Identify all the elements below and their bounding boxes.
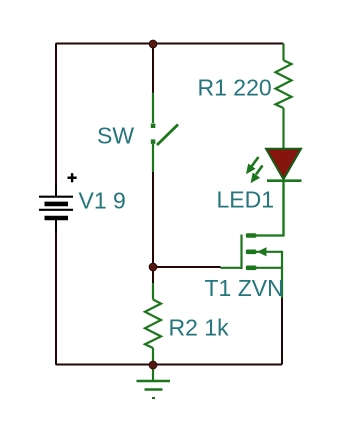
wire gate (node B to T1 gate) [153,266,221,268]
wire R2 stub (node B to R2) [152,267,154,284]
resistor R2 [145,283,161,365]
resistor R1 [276,44,292,149]
wire left lower (V1- down) [55,220,57,365]
LED light arrow 1 [246,157,259,174]
LED LED1 [266,149,302,236]
label V1 9 [79,188,126,214]
wire switch bottom (SW to node B) [152,172,154,267]
svg-text:SW: SW [97,123,134,149]
node C junction dot [149,361,157,369]
label SW [97,123,134,149]
node B junction dot [149,263,157,271]
svg-text:R1 220: R1 220 [198,75,272,101]
svg-text:V1 9: V1 9 [79,188,126,214]
svg-text:LED1: LED1 [217,187,275,213]
wire left (V1+ up) [55,44,57,197]
battery V1 [39,185,73,232]
wire switch top (node A to SW) [152,44,154,93]
battery plus sign [68,173,77,182]
label T1 ZVN [205,275,284,301]
wire bottom [56,364,283,366]
label R1 220 [198,75,272,101]
switch SW [151,93,178,173]
label LED1 [217,187,275,213]
node A junction dot [149,40,157,48]
LED light arrow 2 [251,166,263,184]
T1 source arrow [257,247,267,256]
svg-text:T1 ZVN: T1 ZVN [205,275,284,301]
ground [137,365,171,398]
label R2 1k [169,315,230,341]
wire source (T1 source to bottom) [270,297,282,365]
svg-text:R2 1k: R2 1k [169,315,230,341]
transistor T1 (NMOS) [221,181,284,298]
wire top (V1+ to R1) [56,43,284,45]
